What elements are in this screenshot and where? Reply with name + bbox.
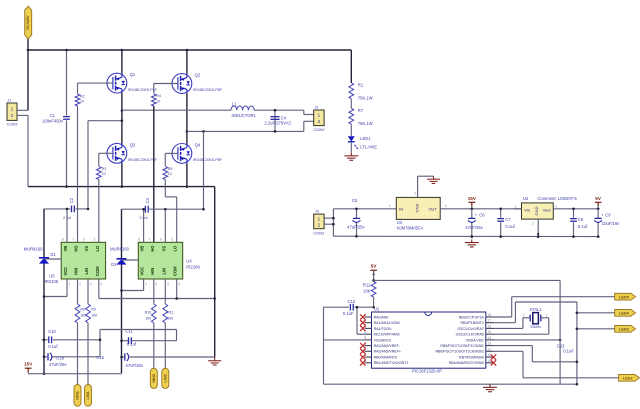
svg-text:HIN2: HIN2 [152,374,156,383]
svg-text:LED4: LED4 [619,311,630,315]
svg-text:R3: R3 [102,167,107,171]
svg-text:LED5: LED5 [619,295,629,299]
svg-text:0.1uf: 0.1uf [505,224,515,229]
svg-text:GND: GND [534,206,539,215]
svg-text:100: 100 [145,317,151,321]
svg-text:COM: COM [173,266,178,276]
svg-text:100: 100 [167,317,173,321]
svg-text:Vin: Vin [524,207,530,212]
svg-text:LIN2: LIN2 [163,374,167,382]
svg-text:LED3: LED3 [619,327,629,331]
svg-text:RA2/AN2/VREF-: RA2/AN2/VREF- [374,344,401,348]
svg-text:RB4/AN6/RX/DT/KBI0: RB4/AN6/RX/DT/KBI0 [449,361,484,365]
svg-text:J3: J3 [315,209,319,213]
svg-text:VCC: VCC [63,267,68,276]
svg-text:R5: R5 [168,167,173,171]
svg-text:R7: R7 [358,108,364,113]
svg-text:LO: LO [95,245,100,252]
svg-text:OUT: OUT [428,207,437,212]
svg-text:COM: COM [95,266,100,276]
svg-text:PIC16F1320-I/P: PIC16F1320-I/P [412,369,442,374]
svg-text:17: 17 [487,319,491,323]
svg-text:IRG4BC20KD-PBF: IRG4BC20KD-PBF [128,158,157,162]
svg-text:RA1/AN1/LVDIN: RA1/AN1/LVDIN [374,321,400,325]
svg-text:RB2/P1B/INT2: RB2/P1B/INT2 [461,321,484,325]
svg-text:1: 1 [515,204,517,208]
svg-text:100: 100 [91,314,97,318]
svg-text:10: 10 [102,172,106,176]
svg-text:C2: C2 [69,197,74,203]
svg-text:U4: U4 [186,258,192,263]
svg-text:8: 8 [62,238,64,242]
svg-text:R1: R1 [358,82,364,87]
svg-text:6: 6 [83,238,85,242]
svg-text:5: 5 [94,238,96,242]
svg-text:75K,1W: 75K,1W [358,96,373,101]
svg-text:7: 7 [149,238,151,242]
svg-text:R4: R4 [156,94,161,98]
svg-text:RB7/PGM/KBI3: RB7/PGM/KBI3 [459,356,484,360]
svg-text:C8: C8 [578,217,584,222]
svg-text:R12: R12 [363,283,371,288]
svg-text:RB3/CCP1/P1A: RB3/CCP1/P1A [459,315,485,319]
svg-text:12: 12 [487,347,491,351]
svg-text:2: 2 [155,282,157,286]
svg-text:VS: VS [84,246,89,252]
svg-text:1: 1 [523,314,525,318]
svg-text:RB6/PGC/T1OSO/T1CKI/KBI2: RB6/PGC/T1OSO/T1CKI/KBI2 [436,350,484,354]
svg-text:C12: C12 [348,299,356,304]
svg-text:VS: VS [161,246,166,252]
svg-text:Comment: LM340T-5: Comment: LM340T-5 [537,196,577,201]
svg-text:C15: C15 [96,355,104,360]
svg-text:2: 2 [532,221,534,225]
svg-text:XTAL1: XTAL1 [529,307,542,312]
svg-text:1: 1 [69,282,71,286]
svg-text:IR2106: IR2106 [45,279,59,284]
svg-text:Q2: Q2 [195,73,201,78]
svg-text:IRG4BC20KD-PBF: IRG4BC20KD-PBF [193,88,222,92]
svg-text:5V: 5V [371,263,378,268]
svg-text:U2: U2 [523,196,529,201]
svg-text:0.1uf: 0.1uf [48,344,58,349]
svg-text:RB0/AN4/INT0: RB0/AN4/INT0 [374,356,397,360]
svg-text:13: 13 [487,342,491,346]
svg-text:IRG4BC20KD-PBF: IRG4BC20KD-PBF [193,158,222,162]
svg-text:C9: C9 [605,213,611,218]
svg-text:Q1: Q1 [130,72,136,77]
svg-text:C7: C7 [505,217,511,222]
svg-text:VB: VB [140,246,145,252]
svg-text:3: 3 [167,282,169,286]
svg-text:Q3: Q3 [130,142,136,147]
svg-text:16: 16 [487,324,491,328]
svg-text:MUR8160: MUR8160 [24,246,44,251]
svg-text:0.1uF: 0.1uF [563,349,574,354]
svg-text:5: 5 [364,336,366,340]
svg-text:RA4/T0CKI: RA4/T0CKI [374,327,392,331]
svg-text:3: 3 [555,204,557,208]
svg-text:1: 1 [145,282,147,286]
svg-text:HO: HO [150,245,155,252]
svg-text:Q4: Q4 [195,143,201,148]
svg-text:J1: J1 [8,99,12,103]
svg-text:HIN: HIN [74,268,79,275]
svg-text:GND: GND [414,203,419,212]
svg-text:2: 2 [79,282,81,286]
svg-text:VCC: VCC [140,267,145,276]
svg-text:CON2: CON2 [313,231,325,236]
svg-text:4: 4 [100,282,102,286]
svg-text:J2: J2 [315,105,319,109]
svg-text:MCLR/VPP/RA5: MCLR/VPP/RA5 [374,333,400,337]
svg-text:8: 8 [138,238,140,242]
svg-text:C16: C16 [56,356,64,361]
svg-text:0.1uF: 0.1uF [343,311,354,316]
svg-text:CON2: CON2 [314,127,326,132]
svg-text:75K,1W: 75K,1W [358,121,373,126]
svg-text:HO: HO [74,245,79,252]
svg-text:47uF/25v: 47uF/25v [347,224,365,229]
svg-text:LED1: LED1 [360,136,371,141]
svg-text:OSC1/CLKI/RA7: OSC1/CLKI/RA7 [457,327,483,331]
svg-text:D1: D1 [50,252,56,257]
svg-text:47uF/25v: 47uF/25v [126,363,144,368]
svg-text:C10: C10 [48,329,56,334]
svg-text:D2: D2 [111,262,117,267]
svg-text:INDUCTOR1: INDUCTOR1 [232,113,257,118]
svg-text:RB1/AN5/TX/CK/INT1: RB1/AN5/TX/CK/INT1 [374,361,409,365]
svg-text:RA0/AN0: RA0/AN0 [374,315,389,319]
svg-text:IR2106: IR2106 [186,265,200,270]
svg-text:10: 10 [80,99,84,103]
svg-text:LIN: LIN [84,268,89,275]
svg-text:1: 1 [389,204,391,208]
svg-text:10: 10 [168,172,172,176]
svg-text:15V: 15V [24,361,33,366]
svg-text:R2: R2 [80,95,85,99]
svg-text:RA3/AN3/VREF+: RA3/AN3/VREF+ [374,350,401,354]
svg-text:2: 2 [414,191,416,195]
svg-text:10: 10 [156,100,160,104]
svg-text:NJM78M05FA: NJM78M05FA [397,225,424,230]
svg-text:R6: R6 [80,307,85,311]
svg-text:LO: LO [173,245,178,252]
svg-text:L1: L1 [232,101,237,106]
svg-text:100nF450v: 100nF450v [42,119,64,124]
svg-text:7: 7 [72,238,74,242]
svg-text:LIN1: LIN1 [86,391,90,399]
svg-text:5V: 5V [595,196,602,201]
svg-text:VSS/AVSS: VSS/AVSS [374,338,392,342]
svg-text:10K: 10K [363,288,371,293]
svg-text:LIN: LIN [161,268,166,275]
svg-text:VDDA VDD: VDDA VDD [466,338,485,342]
svg-text:2.2uF/275VAC: 2.2uF/275VAC [264,120,291,125]
svg-text:C1: C1 [50,113,56,118]
svg-text:15V: 15V [468,196,477,201]
svg-text:100: 100 [80,314,86,318]
svg-text:15: 15 [487,330,491,334]
svg-text:Vout: Vout [543,207,552,212]
svg-text:3: 3 [445,204,447,208]
svg-text:C5: C5 [352,198,358,203]
svg-text:MUR8160: MUR8160 [110,247,130,252]
svg-text:C3: C3 [145,197,150,203]
svg-text:14: 14 [487,336,491,340]
svg-text:6: 6 [160,238,162,242]
svg-text:10uF/16v: 10uF/16v [602,221,620,226]
svg-text:20MHz: 20MHz [530,325,541,329]
svg-text:U5: U5 [49,274,55,279]
svg-text:3: 3 [90,282,92,286]
svg-text:CON2: CON2 [7,121,19,126]
svg-text:LTL-HKE: LTL-HKE [360,145,377,150]
svg-text:DC345V: DC345V [26,15,30,30]
svg-text:47uF/25v: 47uF/25v [49,362,67,367]
svg-text:R11: R11 [167,310,173,314]
svg-text:2: 2 [546,314,548,318]
svg-text:C6: C6 [479,213,485,218]
svg-text:HIN: HIN [150,268,155,275]
svg-text:18: 18 [487,313,491,317]
svg-text:IN: IN [399,207,403,212]
svg-text:IRG4BC20KD-PBF: IRG4BC20KD-PBF [128,88,157,92]
svg-text:47uF/25v: 47uF/25v [465,225,483,230]
svg-text:VB: VB [63,246,68,252]
svg-text:0.1uf: 0.1uf [578,224,588,229]
svg-text:OSC2/CLKO/RA6: OSC2/CLKO/RA6 [456,333,484,337]
svg-text:HIN1: HIN1 [76,391,80,400]
svg-text:R9: R9 [91,307,96,311]
svg-text:R10: R10 [145,310,152,314]
svg-text:4: 4 [178,282,180,286]
svg-text:RB5/PGD/T1OSI/P1C/KBI1: RB5/PGD/T1OSI/P1C/KBI1 [440,344,483,348]
svg-text:LED2: LED2 [623,376,633,380]
svg-text:C11: C11 [126,329,134,334]
svg-text:5: 5 [171,238,173,242]
svg-text:0.1uf: 0.1uf [127,341,137,346]
